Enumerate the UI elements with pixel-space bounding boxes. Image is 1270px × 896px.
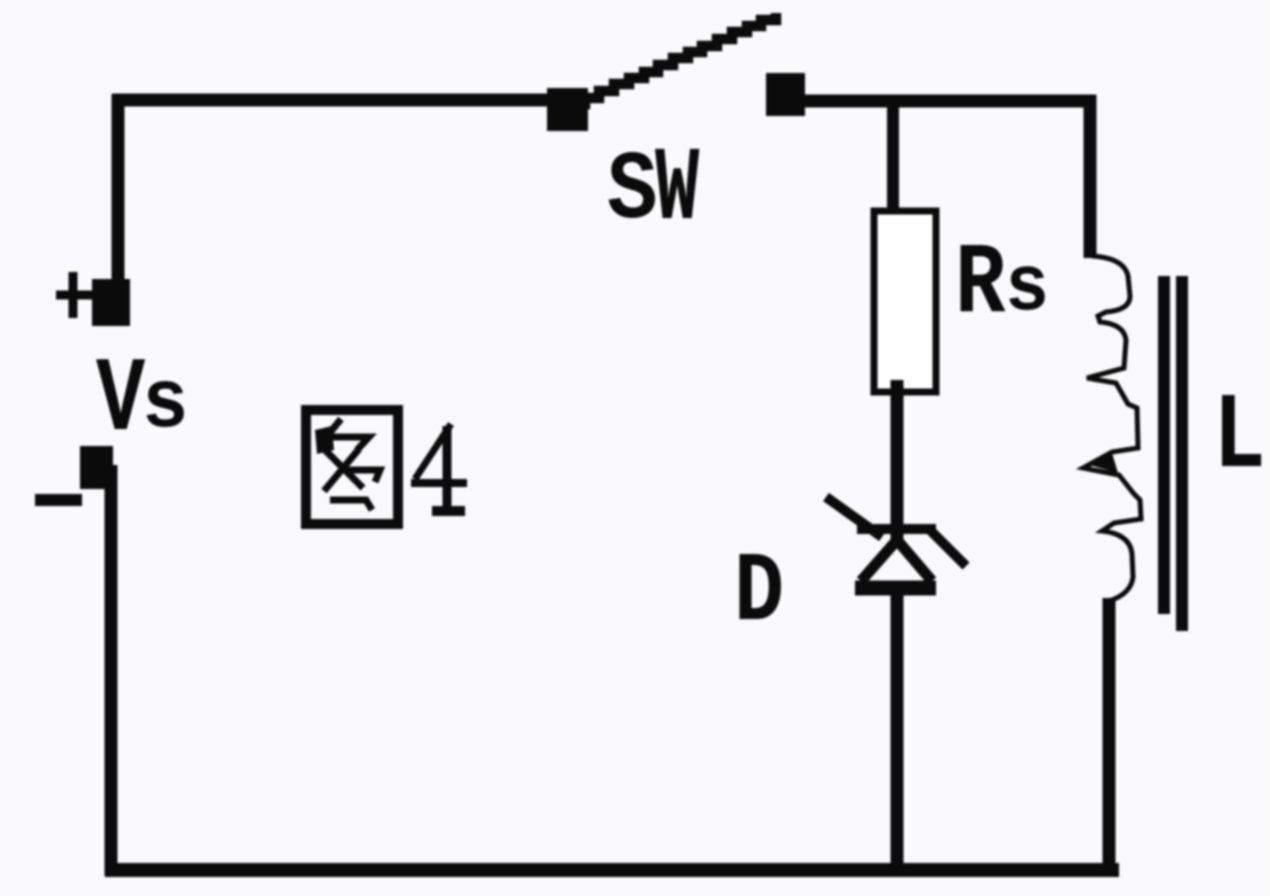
- coil left blob: [1086, 453, 1118, 473]
- wire top left horizontal: [112, 94, 560, 107]
- svg-text:L: L: [1213, 377, 1266, 499]
- plus sign: [56, 272, 92, 318]
- source Vs minus terminal: [80, 446, 113, 489]
- diode D left zener tick: [826, 497, 882, 537]
- wire bottom horizontal: [105, 863, 1119, 877]
- wire top right horizontal: [800, 95, 1096, 108]
- label figure digit 4: [411, 424, 467, 511]
- svg-text:S: S: [607, 137, 658, 247]
- wire diode to bottom: [891, 594, 904, 876]
- diode D cathode bar: [857, 524, 936, 534]
- diode D anode bar: [855, 581, 936, 596]
- svg-text:R: R: [955, 228, 1006, 342]
- svg-text:s: s: [1005, 243, 1049, 334]
- inductor L core bar 1: [1158, 276, 1170, 614]
- wire left vertical upper: [112, 94, 125, 292]
- svg-text:D: D: [734, 537, 784, 649]
- diode D triangle: [861, 540, 932, 581]
- svg-text:V: V: [96, 341, 145, 461]
- tu inner strokes: [319, 419, 380, 510]
- diode D right zener tick: [929, 529, 966, 566]
- inductor L coil: [1083, 256, 1141, 601]
- tu top-left blob: [315, 426, 334, 454]
- wire Rs to diode: [891, 380, 904, 545]
- svg-text:W: W: [655, 132, 700, 250]
- wire Rs branch upper: [887, 95, 899, 214]
- switch SW lever: [570, 13, 776, 104]
- switch SW right terminal: [766, 73, 805, 116]
- source Vs plus terminal: [92, 279, 130, 326]
- resistor Rs body: [874, 211, 936, 392]
- switch SW left terminal: [547, 88, 588, 131]
- wire left vertical lower: [105, 465, 118, 876]
- wire coil to bottom: [1103, 598, 1116, 876]
- inductor L core bar 2: [1176, 276, 1188, 631]
- minus sign: [35, 494, 82, 506]
- wire right vertical upper: [1084, 95, 1097, 258]
- label figure char tu box: [306, 410, 398, 524]
- svg-text:s: s: [142, 357, 189, 452]
